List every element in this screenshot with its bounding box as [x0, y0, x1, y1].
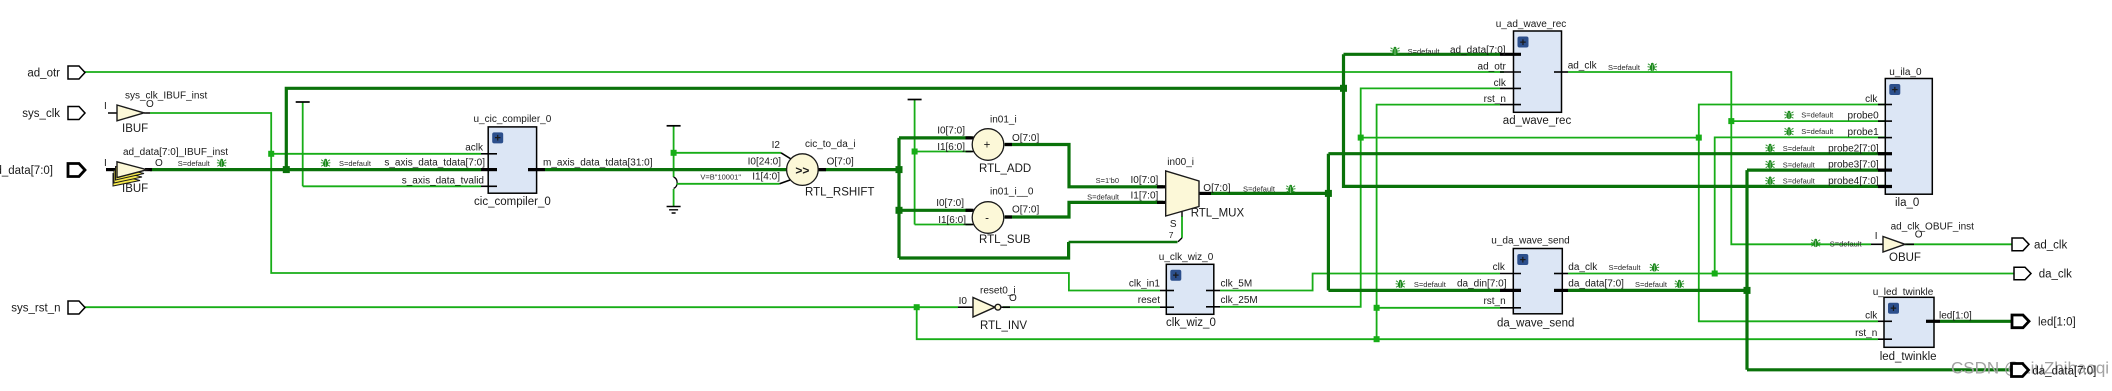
power tie-high T for s_axis_data_tvalid [302, 102, 304, 186]
block ila U u_ila_0 [1828, 67, 1932, 209]
bus led to output port [1940, 320, 2012, 323]
svg-text:ad_data[7:0]: ad_data[7:0] [1450, 45, 1506, 56]
svg-text:u_clk_wiz_0: u_clk_wiz_0 [1159, 252, 1214, 263]
svg-text:S=default: S=default [339, 159, 372, 168]
svg-text:u_ad_wave_rec: u_ad_wave_rec [1496, 19, 1567, 30]
svg-text:S=default: S=default [1783, 160, 1816, 169]
svg-text:led[1:0]: led[1:0] [2038, 317, 2076, 329]
junction rst_n branch to da_wave_send [1374, 305, 1380, 311]
svg-text:>>: >> [795, 164, 809, 178]
svg-text:da_wave_send: da_wave_send [1497, 318, 1574, 330]
svg-text:-: - [985, 213, 989, 225]
svg-text:RTL_ADD: RTL_ADD [979, 163, 1031, 175]
svg-text:I1[6:0]: I1[6:0] [938, 215, 966, 226]
output port ad_clk [2012, 238, 2067, 251]
wire constant V=B"10001" to I1 of RTL_RSHIFT [677, 183, 780, 185]
wire clk net vertical to ila clk and led_twinkle clk [1699, 105, 1885, 322]
block ad_wave_rec U u_ad_wave_rec [1450, 19, 1598, 127]
power tie-high T for constant V=B"10001" [673, 126, 675, 177]
wire net ad_otr [84, 71, 1504, 73]
wire constant to ground [673, 189, 675, 207]
svg-text:I0[7:0]: I0[7:0] [937, 126, 965, 137]
bus RTL_RSHIFT output O [818, 168, 899, 171]
bus RTL_SUB output to MUX I1 [1005, 202, 1163, 217]
svg-text:S=default: S=default [1635, 280, 1668, 289]
wire RTL_MUX S select [1069, 241, 1178, 243]
svg-text:I2: I2 [772, 140, 781, 151]
wire sys_rst_n rail to led_twinkle rst_n [917, 307, 1878, 339]
svg-text:led[1:0]: led[1:0] [1939, 311, 1972, 322]
marker S=default on probe4 [1765, 177, 1815, 186]
svg-text:I1[7:0]: I1[7:0] [1130, 190, 1158, 201]
input port sys_rst_n [11, 301, 85, 315]
junction rst_n rail [1374, 336, 1380, 342]
block da_wave_send U u_da_wave_send [1457, 236, 1624, 330]
svg-text:+: + [1890, 303, 1896, 315]
bus RSHIFT output vertical distribution [899, 138, 972, 258]
wire probe1 riser from da_clk [1715, 137, 1885, 273]
op RTL_ADD in01_i [937, 115, 1039, 176]
svg-text:sys_clk_IBUF_inst: sys_clk_IBUF_inst [125, 91, 207, 102]
svg-text:ad_data[7:0]_IBUF_inst: ad_data[7:0]_IBUF_inst [123, 147, 228, 158]
svg-text:IBUF: IBUF [122, 183, 148, 195]
svg-text:rst_n: rst_n [1483, 296, 1505, 307]
block led_twinkle U u_led_twinkle [1855, 287, 1972, 363]
junction RTL_ADD I1 branch [912, 149, 918, 155]
wire net sys_clk from IBUF to clk_wiz clk_in1 [150, 113, 1160, 291]
svg-text:O[7:0]: O[7:0] [1203, 183, 1230, 194]
svg-text:+: + [1520, 37, 1526, 49]
marker S=default on probe2 [1765, 144, 1815, 153]
svg-text:S=default: S=default [1087, 193, 1120, 202]
bus ad_data branch up and across to ad_wave_rec / probe4 [286, 54, 1885, 186]
output port da_clk [2014, 267, 2072, 280]
svg-text:reset: reset [1138, 295, 1160, 306]
svg-text:m_axis_data_tdata[31:0]: m_axis_data_tdata[31:0] [543, 158, 653, 169]
svg-text:I: I [104, 101, 107, 112]
buffer IBUF sys_clk_IBUF_inst [104, 91, 207, 136]
svg-text:in00_i: in00_i [1167, 157, 1194, 168]
wire ad_clk net from ad_wave_rec to OBUF [1568, 72, 1871, 244]
marker S=default on MUX output [1243, 185, 1295, 194]
op RTL_SUB in01_i__0 [936, 187, 1039, 247]
svg-text:da_data[7:0]: da_data[7:0] [2032, 366, 2096, 378]
svg-text:u_cic_compiler_0: u_cic_compiler_0 [473, 114, 551, 125]
input port sys_clk [22, 107, 85, 121]
svg-text:S=default: S=default [1408, 47, 1441, 56]
svg-text:S=default: S=default [1783, 177, 1816, 186]
svg-text:ad_clk: ad_clk [2034, 239, 2067, 251]
svg-text:s_axis_data_tdata[7:0]: s_axis_data_tdata[7:0] [384, 158, 485, 169]
wire net sys_rst_n to RTL_INV [85, 306, 958, 308]
junction da_clk / probe1 [1712, 271, 1718, 277]
junction RTL_SUB I0 branch [896, 207, 903, 214]
svg-text:O: O [146, 99, 154, 110]
marker S=default on IBUF ad_data output [178, 159, 227, 168]
svg-text:I0[7:0]: I0[7:0] [936, 198, 964, 209]
svg-text:sys_rst_n: sys_rst_n [11, 303, 60, 315]
svg-text:O: O [155, 158, 163, 169]
svg-text:led_twinkle: led_twinkle [1880, 351, 1937, 363]
svg-text:da_data[7:0]: da_data[7:0] [1568, 279, 1624, 290]
svg-text:probe0: probe0 [1848, 110, 1880, 121]
svg-text:clk: clk [1865, 311, 1878, 322]
bus m_axis_data_tdata from cic to RTL_RSHIFT [545, 168, 787, 171]
svg-text:ad_clk_OBUF_inst: ad_clk_OBUF_inst [1891, 222, 1975, 233]
svg-text:u_led_twinkle: u_led_twinkle [1873, 287, 1934, 298]
junction RSHIFT output [896, 166, 903, 173]
bus ripper squiggle on constant net [674, 177, 678, 189]
svg-text:I0: I0 [959, 296, 968, 307]
svg-text:I1[4:0]: I1[4:0] [752, 172, 780, 183]
svg-text:da_clk: da_clk [1568, 262, 1598, 273]
svg-text:V=B"10001": V=B"10001" [700, 173, 741, 182]
svg-text:S=default: S=default [1783, 144, 1816, 153]
junction aclk branch [268, 151, 274, 157]
inverter RTL_INV reset0_i [958, 286, 1027, 333]
svg-text:I0[7:0]: I0[7:0] [1130, 175, 1158, 186]
svg-text:S=default: S=default [1801, 127, 1834, 136]
svg-text:in01_i: in01_i [990, 115, 1017, 126]
svg-text:da_din[7:0]: da_din[7:0] [1457, 279, 1507, 290]
svg-text:aclk: aclk [465, 143, 484, 154]
svg-text:RTL_INV: RTL_INV [980, 320, 1027, 332]
svg-text:ad_otr: ad_otr [1478, 62, 1507, 73]
svg-text:rst_n: rst_n [1484, 94, 1506, 105]
power tie-high T for adder inputs [914, 100, 916, 225]
svg-text:O[7:0]: O[7:0] [1012, 133, 1039, 144]
buffer OBUF ad_clk_OBUF_inst [1871, 222, 1974, 265]
marker S=default on probe3 [1765, 160, 1815, 169]
ground symbol [667, 207, 681, 214]
marker S=default before ad_wave_rec ad_data [1390, 47, 1440, 56]
svg-text:S=default: S=default [1801, 111, 1834, 120]
marker S=default on da_data [1635, 280, 1684, 289]
wire to RTL_SUB I1 [915, 224, 972, 226]
svg-text:OBUF: OBUF [1889, 252, 1921, 264]
svg-text:clk: clk [1493, 262, 1506, 273]
svg-text:RTL_MUX: RTL_MUX [1191, 208, 1245, 220]
output port da_data[7:0] (bus) [2012, 364, 2097, 378]
svg-text:7: 7 [1169, 230, 1174, 240]
junction MUX output [1325, 190, 1332, 197]
buffer IBUF ad_data[7:0]_IBUF_inst (bus buffer) [104, 147, 228, 195]
svg-text:S=default: S=default [1243, 185, 1276, 194]
wire clk_25M branch across [1361, 137, 1699, 139]
wire branch I2 to RTL_RSHIFT [674, 152, 781, 154]
svg-text:clk: clk [1494, 78, 1507, 89]
svg-text:RTL_RSHIFT: RTL_RSHIFT [805, 187, 874, 199]
svg-text:S=default: S=default [1414, 280, 1447, 289]
svg-text:ad_data[7:0]: ad_data[7:0] [0, 165, 53, 177]
wire rst_n branch to da_wave_send [1377, 307, 1500, 309]
bus ad_data from IBUF to cic_compiler [150, 168, 481, 171]
marker S=default before s_axis_data_tdata [321, 159, 372, 168]
svg-text:clk_5M: clk_5M [1221, 279, 1253, 290]
svg-text:clk_in1: clk_in1 [1129, 279, 1161, 290]
svg-text:+: + [494, 133, 500, 145]
input port ad_data[7:0] (bus) [0, 164, 85, 178]
bus da_data distribution probe3 / output port [1747, 170, 2012, 370]
bus MUX output distribution probe2 / da_din [1328, 154, 1885, 291]
op RTL_RSHIFT cic_to_da_i [700, 139, 874, 199]
svg-text:ad_wave_rec: ad_wave_rec [1503, 115, 1572, 127]
svg-text:O: O [1009, 293, 1017, 304]
op RTL_MUX in00_i [1087, 157, 1244, 240]
svg-text:O[7:0]: O[7:0] [827, 157, 854, 168]
wire rst_n riser to ad_wave_rec [1377, 105, 1500, 340]
svg-text:I1[6:0]: I1[6:0] [937, 142, 965, 153]
marker S=default on ad_clk [1608, 63, 1657, 72]
input port ad_otr [27, 66, 85, 80]
svg-text:u_da_wave_send: u_da_wave_send [1491, 236, 1569, 247]
svg-text:S=default: S=default [1609, 263, 1642, 272]
wire probe0 branch [1731, 120, 1885, 122]
svg-text:I: I [1875, 231, 1878, 242]
wire da_clk net to output port [1568, 273, 2014, 275]
svg-text:clk_wiz_0: clk_wiz_0 [1166, 317, 1216, 329]
wire RTL_INV output to clk_wiz reset [1003, 306, 1160, 308]
svg-text:ila_0: ila_0 [1895, 197, 1919, 209]
bus da_data from da_wave_send [1568, 289, 1747, 292]
svg-text:probe3[7:0]: probe3[7:0] [1828, 160, 1879, 171]
svg-text:+: + [1892, 84, 1898, 96]
marker S=default on probe1 [1784, 127, 1834, 136]
bus select rail to RTL_MUX S [899, 242, 1069, 258]
junction probe0 [1728, 118, 1734, 124]
svg-text:S=default: S=default [1830, 240, 1863, 249]
block clk_wiz U u_clk_wiz_0 [1129, 252, 1258, 329]
wire clk_25M to ad_wave_rec clk [1220, 88, 1500, 306]
junction I2 branch [671, 150, 677, 156]
svg-text:rst_n: rst_n [1855, 328, 1877, 339]
svg-text:O[7:0]: O[7:0] [1012, 205, 1039, 216]
svg-text:cic_to_da_i: cic_to_da_i [805, 139, 856, 150]
svg-text:I: I [104, 158, 107, 169]
svg-text:s_axis_data_tvalid: s_axis_data_tvalid [402, 175, 484, 186]
svg-text:RTL_SUB: RTL_SUB [979, 234, 1031, 246]
junction ad_data at ad_wave_rec [1340, 85, 1347, 92]
output port led[1:0] (bus) [2012, 315, 2076, 329]
svg-text:u_ila_0: u_ila_0 [1889, 67, 1922, 78]
wire OBUF output to ad_clk port [1905, 243, 2012, 245]
svg-text:+: + [984, 140, 991, 152]
wire clk_5M to da_wave_send clk [1220, 274, 1500, 291]
svg-text:S=default: S=default [178, 159, 211, 168]
svg-text:+: + [1173, 270, 1179, 282]
junction sys_rst_n branch [914, 304, 920, 310]
junction clk_25M branch left [1358, 135, 1364, 141]
svg-text:S=default: S=default [1608, 63, 1641, 72]
junction ad_data at IBUF [283, 166, 290, 173]
wire s_axis_data_tvalid [303, 185, 481, 187]
bus RTL_ADD output to MUX I0 [1005, 145, 1163, 187]
marker S=default on da_clk [1609, 263, 1660, 272]
svg-text:probe4[7:0]: probe4[7:0] [1828, 176, 1879, 187]
bus RTL_MUX output [1211, 192, 1328, 195]
wire branch aclk to cic_compiler [271, 153, 481, 155]
marker S=default on probe0 [1784, 111, 1834, 120]
junction clk net [1696, 135, 1702, 141]
svg-text:+: + [1520, 254, 1526, 266]
svg-text:probe2[7:0]: probe2[7:0] [1828, 143, 1879, 154]
svg-text:da_clk: da_clk [2039, 269, 2072, 281]
marker S=default before OBUF input [1811, 239, 1863, 249]
junction da_data [1744, 287, 1751, 294]
svg-text:sys_clk: sys_clk [22, 108, 60, 120]
marker S=default before da_din [1396, 280, 1447, 289]
svg-text:cic_compiler_0: cic_compiler_0 [474, 196, 551, 208]
block cic_compiler U u_cic_compiler_0 [384, 114, 652, 208]
svg-text:S=1'b0: S=1'b0 [1096, 176, 1119, 185]
svg-text:probe1: probe1 [1848, 127, 1880, 138]
svg-text:S: S [1170, 219, 1177, 230]
svg-text:clk: clk [1865, 94, 1878, 105]
wire branch to RTL_ADD I1 [915, 151, 972, 153]
svg-text:I0[24:0]: I0[24:0] [748, 157, 782, 168]
svg-text:ad_clk: ad_clk [1568, 61, 1598, 72]
svg-text:in01_i__0: in01_i__0 [990, 187, 1034, 198]
svg-text:IBUF: IBUF [122, 123, 148, 135]
svg-text:clk_25M: clk_25M [1221, 295, 1258, 306]
svg-text:ad_otr: ad_otr [27, 68, 60, 80]
